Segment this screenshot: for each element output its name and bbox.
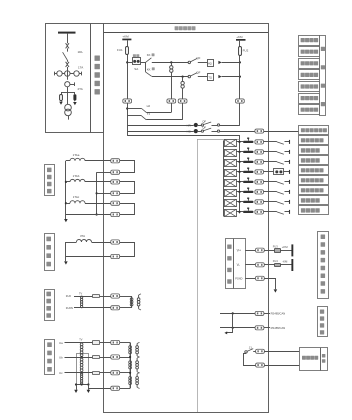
terminal COM1 — [255, 311, 264, 315]
terminal tick — [289, 180, 291, 184]
wire — [264, 141, 277, 143]
wire J1 link — [244, 354, 256, 366]
fuse FU4 — [273, 259, 281, 267]
svg-text:FU3: FU3 — [273, 244, 278, 248]
wire — [67, 60, 69, 62]
wire — [264, 264, 274, 266]
ground PT right — [87, 385, 91, 394]
wire HG row — [127, 131, 193, 133]
svg-text:1TA: 1TA — [78, 66, 83, 70]
terminal U01 — [111, 294, 120, 298]
contact S6 — [277, 192, 284, 194]
svg-text:1DL: 1DL — [78, 50, 84, 54]
arrester arrow right — [73, 102, 77, 105]
PT winding a — [80, 343, 83, 346]
fuse box 3U0 — [93, 295, 100, 298]
contact QF lamp row2 — [198, 126, 220, 133]
terminal tick — [289, 170, 291, 174]
label box control row 5 — [299, 82, 320, 92]
contact HJ — [127, 104, 150, 112]
wire FU2 branch to HR — [239, 103, 241, 125]
contact S8 — [277, 212, 284, 214]
junction — [129, 372, 131, 374]
wire Un row — [88, 388, 110, 390]
terminal D3 — [255, 160, 264, 164]
fuse FU primary — [60, 95, 63, 102]
wire — [264, 161, 277, 163]
wire — [100, 372, 111, 374]
wire — [236, 141, 243, 143]
svg-text:PGND: PGND — [235, 278, 242, 281]
wire — [285, 211, 290, 213]
wire pair link — [120, 243, 135, 257]
wire RS485 A row — [220, 313, 255, 315]
label box control row 2 — [299, 47, 320, 57]
wire return c — [97, 193, 111, 195]
junction — [81, 372, 83, 374]
device PT winding primary — [130, 296, 133, 308]
wire Uc row — [65, 372, 93, 374]
connector XP2 — [223, 149, 236, 156]
PT winding vertical — [80, 296, 82, 308]
link XB7 — [243, 198, 254, 204]
CT winding 1TAb — [66, 174, 85, 182]
svg-text:V+: V+ — [237, 249, 242, 253]
connector XP7 — [223, 199, 236, 206]
PT winding c — [80, 373, 82, 375]
junction — [129, 356, 131, 358]
junction — [238, 201, 240, 203]
wire device PT b link — [120, 357, 130, 359]
terminal tick — [289, 200, 291, 204]
junction — [126, 107, 128, 109]
wire CT return vertical — [96, 172, 98, 214]
junction — [126, 61, 128, 63]
wire KK branch down — [145, 62, 147, 72]
label box input row 8 — [299, 196, 329, 205]
terminal I3 — [111, 180, 120, 184]
connector XP6 — [223, 189, 236, 196]
svg-text:-KM: -KM — [282, 260, 288, 264]
contact KK-open — [146, 67, 155, 76]
net +KM tap — [282, 244, 294, 256]
coil HQ — [208, 60, 214, 67]
drawout contact lower — [66, 62, 69, 67]
busbar — [58, 32, 76, 34]
label box control row 7 — [299, 105, 320, 115]
junction — [238, 191, 240, 193]
wire — [67, 67, 69, 80]
wire — [285, 181, 290, 183]
wire PT neutral join — [76, 384, 88, 386]
wire — [285, 141, 290, 143]
shield arrow — [224, 331, 227, 334]
terminal D1 — [255, 140, 264, 144]
terminal I5 — [111, 201, 120, 205]
bus tap bar +KM left — [122, 39, 131, 41]
wire CT pair link — [120, 204, 135, 215]
wire — [265, 365, 300, 367]
title 二次原理图 — [175, 26, 179, 30]
label box control row 3 — [299, 59, 320, 69]
wire Ub row — [65, 357, 93, 359]
wire — [285, 191, 290, 193]
terminal COM2 — [255, 326, 264, 330]
svg-text:KK: KK — [147, 53, 151, 57]
wire COM to signal box — [264, 131, 299, 133]
svg-text:RS485/CAN: RS485/CAN — [271, 311, 286, 315]
label box input row 3 — [299, 146, 329, 155]
contact QF lamp row1 — [198, 120, 220, 127]
terminal I6 — [111, 212, 120, 216]
svg-text:2TA: 2TA — [78, 87, 83, 91]
wire CT pair link — [120, 161, 135, 173]
PT winding b — [80, 358, 83, 361]
ground CT star — [64, 215, 68, 223]
wire Ua row — [65, 342, 93, 344]
wire return b — [97, 172, 111, 174]
fuse box Ub — [93, 356, 100, 359]
transformer T circles — [65, 104, 72, 115]
junction — [232, 312, 234, 314]
label box control row 6 — [299, 94, 320, 104]
connector XP8 — [223, 209, 236, 216]
svg-text:TV: TV — [79, 292, 83, 295]
svg-text:TJ: TJ — [147, 112, 151, 116]
svg-text:1TAb: 1TAb — [73, 174, 80, 178]
plug SB charging position — [274, 169, 284, 175]
contact S1 — [277, 142, 284, 144]
terminal D5 — [255, 180, 264, 184]
wire RS485 B row — [220, 327, 255, 329]
wire busbar drop — [67, 34, 69, 44]
wire — [264, 313, 270, 315]
wire row open — [152, 76, 189, 78]
label box 电流回路 — [45, 165, 55, 196]
junction — [238, 161, 240, 163]
wire — [265, 351, 300, 353]
link XB2 — [243, 148, 254, 154]
wire — [127, 40, 129, 46]
terminal X1 — [123, 99, 132, 103]
label box 零序电压 — [45, 290, 55, 321]
link XB8 — [243, 208, 254, 214]
wire return n row — [66, 214, 111, 216]
terminal V+ — [256, 248, 265, 252]
svg-text:TQ: TQ — [208, 77, 212, 80]
label box 通讯接口 — [318, 307, 328, 337]
svg-text:RS485/CAN: RS485/CAN — [271, 326, 286, 330]
wire — [280, 250, 291, 252]
device PT secondary b — [136, 357, 140, 373]
terminal tick — [289, 190, 291, 194]
ground PT left — [74, 385, 78, 394]
wire — [236, 171, 243, 173]
contact S2 — [277, 152, 284, 154]
svg-text:QF: QF — [196, 56, 200, 60]
ground arrow PGND — [274, 289, 278, 292]
wire PGND to ground — [264, 279, 275, 290]
drawout contact upper — [66, 43, 69, 48]
svg-text:HG: HG — [187, 129, 192, 133]
wire — [67, 48, 69, 51]
wire to device PT return — [120, 307, 132, 309]
svg-text:+KM: +KM — [236, 35, 243, 39]
terminal X3 — [178, 99, 187, 103]
junction — [239, 76, 241, 78]
wire row close — [152, 62, 189, 64]
wire — [236, 161, 243, 163]
junction — [238, 141, 240, 143]
wire FU1 to terminal — [127, 55, 129, 99]
terminal COM — [255, 129, 264, 133]
terminal I2 — [111, 170, 120, 174]
coil TQ — [208, 74, 214, 81]
wire bottom common row — [127, 136, 239, 214]
svg-text:HR: HR — [187, 123, 191, 127]
junction — [170, 61, 172, 63]
fault signal box 故障信号 — [300, 348, 328, 371]
fuse FU2 — [239, 47, 242, 56]
svg-text:KK: KK — [147, 67, 151, 71]
junction — [96, 192, 98, 194]
terminal tick — [289, 210, 291, 214]
wire — [222, 62, 240, 64]
wire — [236, 151, 243, 153]
fuse box Ua — [93, 341, 100, 345]
terminal D6 — [255, 190, 264, 194]
svg-text:QF: QF — [202, 120, 206, 124]
terminal U3 — [111, 371, 120, 375]
label box 零序电流 — [45, 234, 55, 271]
svg-text:3U0N: 3U0N — [66, 306, 73, 310]
link XB5 — [243, 178, 254, 184]
wire device PT c link — [120, 372, 130, 374]
aux power box 辅助电源 — [226, 239, 246, 289]
svg-text:3TA: 3TA — [80, 234, 85, 238]
wire — [264, 250, 274, 252]
contact S7 — [277, 202, 284, 204]
wire X-box left chain — [223, 140, 225, 216]
ground zero seq — [64, 257, 68, 265]
svg-text:+KM: +KM — [122, 35, 129, 39]
wire return row — [66, 256, 111, 258]
wire V- row — [245, 264, 255, 266]
wire V+ row — [245, 250, 255, 252]
connector XP3 — [223, 159, 236, 166]
net -KM tap — [282, 259, 293, 271]
contact S3 — [277, 162, 284, 164]
label box control row 4 — [299, 70, 320, 80]
wire device PT a link — [120, 342, 130, 344]
title separator line — [104, 32, 268, 34]
wire device PT n link — [120, 388, 130, 390]
junction — [75, 383, 77, 385]
junction — [238, 211, 240, 213]
label box input row 1 — [299, 126, 329, 135]
arrester primary — [73, 94, 76, 101]
wire transformer tail — [68, 116, 70, 120]
svg-text:Uc: Uc — [59, 371, 63, 375]
terminal D8 — [255, 210, 264, 214]
wire — [85, 160, 111, 162]
wire from X1 down — [127, 103, 129, 136]
device PT secondary a — [136, 342, 140, 357]
switch SA 就地 box — [133, 54, 141, 64]
CT winding 3TA — [66, 234, 92, 242]
wire — [285, 201, 290, 203]
wire SA out — [140, 62, 145, 64]
wire to SA box — [127, 62, 132, 64]
wire — [100, 342, 111, 344]
wire CT pair link — [120, 182, 135, 194]
wire — [100, 357, 111, 359]
junction — [65, 181, 67, 183]
contact J1 — [245, 349, 256, 353]
wire shield drain — [227, 313, 233, 332]
label box input row 2 — [299, 136, 329, 145]
svg-text:QF: QF — [202, 126, 206, 130]
CT winding 1TAc — [66, 195, 85, 203]
wire — [220, 125, 240, 127]
contact KK-close — [146, 53, 155, 62]
fuse FU3 — [273, 244, 281, 252]
wire — [239, 41, 241, 47]
terminal X2 — [167, 99, 176, 103]
wire — [222, 76, 240, 78]
wire HR row — [127, 125, 193, 127]
wire — [264, 191, 277, 193]
link XB1 — [243, 138, 254, 144]
svg-text:3U0: 3U0 — [66, 294, 72, 298]
terminal I4 — [111, 191, 120, 195]
svg-text:+KM: +KM — [282, 245, 288, 249]
terminal K1 — [256, 349, 265, 353]
wire — [280, 264, 291, 266]
wire — [264, 327, 270, 329]
device PT winding secondary — [137, 294, 141, 310]
wire — [264, 171, 277, 173]
svg-text:TV: TV — [79, 338, 83, 341]
breaker 1DL blade — [63, 52, 68, 60]
svg-text:FU1: FU1 — [117, 48, 123, 52]
terminal tick — [289, 150, 291, 154]
wire branch — [61, 87, 75, 105]
wire — [264, 151, 277, 153]
fuse box Uc — [93, 372, 100, 375]
terminal D4 — [255, 170, 264, 174]
wire — [85, 181, 111, 183]
wire — [236, 211, 243, 213]
terminal U2 — [111, 355, 120, 359]
contact QF open row — [188, 70, 207, 77]
fuse FU1 — [126, 47, 129, 55]
connector XP4 — [223, 169, 236, 176]
label strip 控制回路 — [320, 36, 326, 116]
terminal PGND — [256, 276, 265, 280]
relay coil R1 — [170, 62, 173, 99]
CT 2TA circle — [65, 82, 75, 87]
junction — [232, 327, 234, 329]
svg-text:HJ: HJ — [147, 104, 151, 108]
label box control row 1 — [299, 36, 320, 46]
lamp HG — [194, 129, 198, 133]
wire 3U0 row — [74, 296, 92, 298]
bus tap bar +KM right — [236, 39, 246, 41]
terminal U02 — [111, 306, 120, 310]
wire — [236, 191, 243, 193]
main schematic frame — [104, 24, 269, 413]
label box 电压回路 — [45, 340, 55, 375]
junction — [81, 383, 83, 385]
wire — [285, 151, 290, 153]
arrester arrow left — [59, 102, 63, 105]
wire to device PT — [120, 296, 132, 298]
terminal U1 — [111, 340, 120, 344]
terminal I02 — [111, 254, 120, 258]
wire — [285, 161, 290, 163]
junction — [96, 213, 98, 215]
wire — [100, 296, 111, 298]
terminal I01 — [111, 240, 120, 244]
terminal X4 — [236, 99, 245, 103]
contact QF close row — [188, 56, 207, 63]
svg-text:HQ: HQ — [208, 62, 212, 65]
terminal K2 — [256, 363, 265, 367]
label box input row 4 — [299, 156, 329, 165]
terminal I1 — [111, 159, 120, 163]
junction — [65, 202, 67, 204]
wire — [264, 181, 277, 183]
wire gray inner line — [197, 139, 240, 141]
wire 3U0N row — [74, 307, 111, 309]
label box 装置工作电源输入 — [318, 232, 329, 299]
link XB3 — [243, 158, 254, 164]
svg-text:Ua: Ua — [59, 341, 63, 345]
wire PGND row — [245, 278, 255, 280]
label box 一次系统图 — [91, 24, 104, 133]
lamp HR — [194, 123, 198, 127]
wire TJ row — [146, 103, 182, 120]
primary single-line diagram box — [46, 24, 91, 133]
wire HG row to COM terminal — [220, 131, 255, 133]
label box input row 7 — [299, 186, 329, 195]
PT enclosure — [77, 354, 89, 385]
junction — [87, 383, 89, 385]
wire — [85, 203, 111, 205]
junction — [81, 356, 83, 358]
svg-text:FU4: FU4 — [273, 259, 278, 263]
link XB6 — [243, 188, 254, 194]
wire HJ row — [146, 103, 171, 112]
wire — [236, 181, 243, 183]
wire — [284, 171, 290, 173]
terminal tick — [289, 160, 291, 164]
contact S5 — [277, 182, 284, 184]
label box input row 9 — [299, 206, 329, 215]
junction — [238, 171, 240, 173]
relay coil R2 — [181, 77, 184, 99]
connector arrow — [218, 75, 221, 78]
CT 1TA circles — [55, 71, 82, 76]
terminal D2 — [255, 150, 264, 154]
terminal U4 — [111, 386, 120, 390]
device PT secondary c — [136, 373, 140, 389]
svg-text:1TAc: 1TAc — [73, 195, 80, 199]
svg-text:Ub: Ub — [59, 355, 63, 359]
junction — [239, 61, 241, 63]
label box input row 5 — [299, 166, 329, 175]
